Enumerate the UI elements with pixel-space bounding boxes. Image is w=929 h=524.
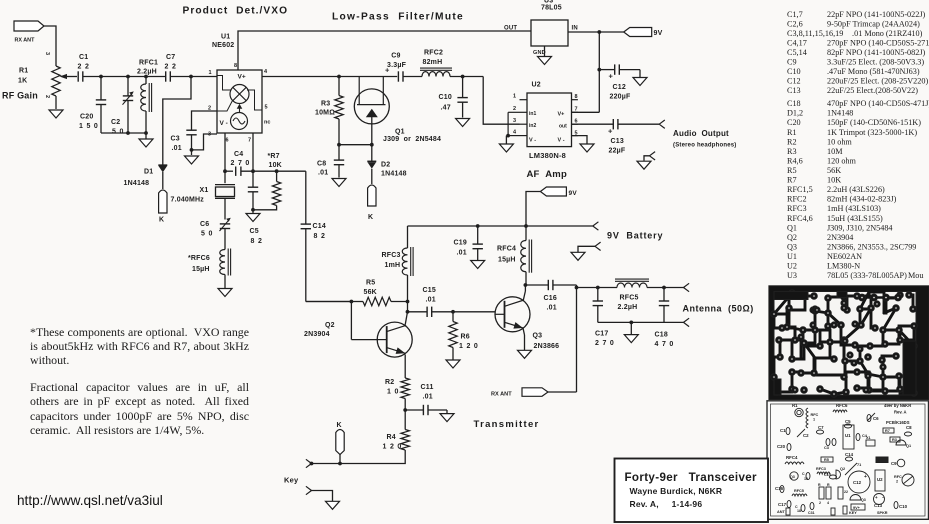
svg-text:RFC4,6: RFC4,6 — [787, 214, 813, 223]
svg-text:10M: 10M — [827, 147, 843, 156]
svg-text:RFC: RFC — [894, 475, 902, 479]
svg-text:8: 8 — [234, 63, 237, 69]
svg-text:1 5 0: 1 5 0 — [79, 123, 99, 130]
svg-text:C2: C2 — [803, 433, 809, 438]
svg-text:RF Gain: RF Gain — [2, 91, 38, 101]
svg-text:82mH (434-02-823J): 82mH (434-02-823J) — [827, 195, 897, 204]
svg-text:RFC5: RFC5 — [794, 489, 804, 493]
svg-text:V -: V - — [220, 120, 228, 127]
svg-text:C12: C12 — [853, 480, 862, 485]
svg-text:C16: C16 — [775, 486, 784, 491]
svg-text:7.040MHz: 7.040MHz — [171, 196, 205, 203]
svg-text:4 7 0: 4 7 0 — [655, 341, 675, 348]
svg-text:10 ohm: 10 ohm — [827, 137, 852, 146]
svg-text:V+: V+ — [238, 74, 246, 81]
svg-text:Q2: Q2 — [787, 233, 797, 242]
svg-text:in1: in1 — [529, 111, 536, 117]
svg-text:C7: C7 — [166, 54, 175, 61]
svg-text:2 7 0: 2 7 0 — [231, 160, 251, 167]
svg-text:1: 1 — [209, 70, 212, 76]
svg-text:in2: in2 — [529, 123, 536, 129]
svg-text:RX ANT: RX ANT — [15, 38, 36, 44]
svg-text:Low-Pass Filter/Mute: Low-Pass Filter/Mute — [332, 12, 464, 23]
svg-text:C7: C7 — [818, 425, 824, 430]
svg-text:C14: C14 — [313, 223, 326, 230]
svg-text:−: − — [882, 495, 885, 500]
svg-text:4: 4 — [513, 130, 517, 136]
svg-text:RFC2: RFC2 — [787, 195, 807, 204]
svg-text:2 2: 2 2 — [165, 64, 177, 71]
svg-text:9V: 9V — [569, 190, 578, 197]
svg-text:Antenna (50Ω): Antenna (50Ω) — [683, 304, 754, 314]
svg-text:C3: C3 — [171, 136, 180, 143]
svg-text:K: K — [159, 217, 164, 224]
svg-text:C10: C10 — [899, 504, 908, 509]
svg-text:Q3: Q3 — [861, 498, 866, 502]
svg-text:7: 7 — [248, 138, 251, 144]
svg-text:RX ANT: RX ANT — [491, 392, 512, 398]
svg-text:2.2µH: 2.2µH — [618, 304, 638, 311]
svg-text:OUT: OUT — [504, 26, 517, 32]
svg-text:C13: C13 — [611, 138, 624, 145]
svg-text:U1: U1 — [221, 34, 230, 41]
svg-text:C10: C10 — [787, 67, 801, 76]
svg-text:RFC4: RFC4 — [786, 455, 798, 460]
svg-text:U3: U3 — [544, 0, 553, 5]
svg-text:56K: 56K — [364, 289, 377, 296]
svg-text:RFC: RFC — [811, 413, 819, 417]
svg-text:C20: C20 — [80, 114, 93, 121]
svg-text:Q1: Q1 — [787, 223, 797, 232]
svg-text:56K: 56K — [827, 166, 841, 175]
svg-text:D1: D1 — [144, 169, 153, 176]
svg-text:1K: 1K — [18, 78, 27, 85]
svg-text:2: 2 — [513, 106, 516, 112]
svg-text:Audio Output: Audio Output — [673, 129, 729, 138]
svg-text:nc: nc — [264, 120, 270, 126]
svg-text:U3: U3 — [787, 271, 797, 280]
svg-text:R7: R7 — [885, 429, 890, 433]
svg-text:8 2: 8 2 — [251, 238, 263, 245]
svg-text:C4: C4 — [234, 151, 243, 158]
svg-text:Rev. A, 1-14-96: Rev. A, 1-14-96 — [630, 499, 703, 509]
svg-text:X1: X1 — [866, 436, 871, 440]
svg-text:82pF NPO (141-100N5-082J): 82pF NPO (141-100N5-082J) — [827, 48, 926, 57]
svg-text:2: 2 — [896, 480, 898, 484]
svg-text:1: 1 — [813, 418, 815, 422]
svg-text:10K: 10K — [827, 176, 841, 185]
svg-text:6: 6 — [226, 138, 229, 144]
svg-text:.01: .01 — [318, 170, 328, 177]
svg-text:J309 or 2N5484: J309 or 2N5484 — [383, 136, 441, 143]
svg-text:RFC5: RFC5 — [620, 295, 639, 302]
svg-text:5: 5 — [265, 105, 268, 111]
svg-text:RFC3: RFC3 — [382, 252, 401, 259]
svg-text:C11: C11 — [421, 384, 434, 391]
svg-text:R3: R3 — [787, 147, 797, 156]
svg-text:U2: U2 — [877, 477, 883, 482]
svg-text:NE602: NE602 — [212, 42, 234, 49]
svg-text:LM380N-8: LM380N-8 — [529, 151, 566, 160]
svg-text:2N3866: 2N3866 — [534, 343, 560, 350]
svg-text:3.3uF/25 Elect. (208-50V3.3): 3.3uF/25 Elect. (208-50V3.3) — [827, 58, 924, 67]
svg-text:AF Amp: AF Amp — [527, 169, 567, 180]
svg-text:10K: 10K — [269, 162, 282, 169]
svg-text:220µF: 220µF — [610, 94, 632, 101]
svg-text:C5: C5 — [250, 228, 259, 235]
svg-text:2.2uH (43LS226): 2.2uH (43LS226) — [827, 185, 885, 194]
svg-text:RFC3: RFC3 — [816, 467, 826, 471]
svg-text:C5,14: C5,14 — [787, 48, 807, 57]
svg-text:R4,6: R4,6 — [787, 157, 803, 166]
svg-text:+: + — [609, 72, 614, 81]
svg-text:R5: R5 — [366, 280, 375, 287]
svg-text:1 0: 1 0 — [387, 389, 399, 396]
svg-text:V -: V - — [529, 138, 536, 144]
svg-text:Rev. A: Rev. A — [894, 410, 907, 415]
svg-text:C10: C10 — [439, 94, 452, 101]
svg-text:2: 2 — [44, 95, 50, 98]
svg-text:9V Battery: 9V Battery — [607, 231, 663, 241]
svg-text:7: 7 — [575, 107, 578, 113]
svg-text:RFC1: RFC1 — [139, 60, 158, 67]
svg-text:C2: C2 — [111, 119, 120, 126]
svg-text:C14: C14 — [845, 452, 854, 457]
svg-text:C20: C20 — [777, 444, 786, 449]
svg-text:8 2: 8 2 — [314, 233, 326, 240]
svg-text:220uF/25 Elect. (208-25V220): 220uF/25 Elect. (208-25V220) — [827, 77, 928, 86]
svg-text:C18: C18 — [787, 99, 801, 108]
svg-text:NE602AN: NE602AN — [827, 252, 862, 261]
svg-text:Q2: Q2 — [840, 467, 845, 471]
svg-text:2: 2 — [819, 501, 821, 505]
svg-text:C17: C17 — [778, 502, 787, 507]
svg-text:C12: C12 — [613, 84, 626, 91]
svg-text:2N3866, 2N3553., 2SC799: 2N3866, 2N3553., 2SC799 — [827, 242, 916, 251]
svg-text:V -: V - — [558, 138, 565, 144]
svg-text:Product Det./VXO: Product Det./VXO — [183, 6, 289, 17]
svg-text:C13: C13 — [874, 503, 883, 508]
svg-text:15µH: 15µH — [498, 257, 516, 264]
svg-text:IN: IN — [572, 26, 578, 32]
svg-text:C5: C5 — [845, 419, 851, 424]
svg-text:Q3: Q3 — [787, 242, 797, 251]
svg-text:71: 71 — [857, 463, 861, 467]
svg-text:Key: Key — [284, 476, 299, 485]
svg-text:15µH: 15µH — [192, 266, 210, 273]
svg-text:8: 8 — [575, 94, 578, 100]
svg-text:Q1: Q1 — [906, 444, 911, 448]
svg-text:5 0: 5 0 — [201, 231, 213, 238]
svg-text:R7: R7 — [787, 176, 797, 185]
svg-text:C6: C6 — [200, 221, 209, 228]
svg-text:*RFC6: *RFC6 — [188, 255, 210, 262]
svg-text:.47: .47 — [441, 105, 451, 112]
svg-text:D1,2: D1,2 — [787, 109, 803, 118]
svg-text:X1: X1 — [200, 187, 209, 194]
svg-text:Q1: Q1 — [395, 129, 405, 136]
svg-text:9-50pF Trimcap (24AA024): 9-50pF Trimcap (24AA024) — [827, 19, 920, 28]
svg-text:22: 22 — [844, 490, 848, 494]
svg-text:150pF (140-CD50N6-151K): 150pF (140-CD50N6-151K) — [827, 118, 921, 127]
svg-text:R: R — [827, 483, 830, 487]
svg-text:C4,17: C4,17 — [787, 39, 807, 48]
svg-text:Transmitter: Transmitter — [474, 419, 540, 430]
svg-text:+: + — [875, 495, 878, 500]
svg-text:1: 1 — [513, 94, 516, 100]
svg-text:R2: R2 — [787, 137, 797, 146]
svg-text:22pF NPO (141-100N5-022J): 22pF NPO (141-100N5-022J) — [827, 10, 926, 19]
svg-text:.01: .01 — [172, 145, 182, 152]
svg-text:Q3: Q3 — [533, 333, 543, 340]
svg-text:22µF: 22µF — [609, 148, 626, 155]
svg-text:3: 3 — [44, 52, 50, 55]
svg-text:K: K — [368, 214, 373, 221]
svg-text:.01: .01 — [547, 305, 557, 312]
svg-text:SPKR: SPKR — [877, 511, 888, 515]
svg-text:C8: C8 — [906, 425, 912, 430]
svg-text:49er by N6KR: 49er by N6KR — [884, 403, 911, 408]
svg-text:1K Trimpot (323-5000-1K): 1K Trimpot (323-5000-1K) — [827, 128, 917, 137]
svg-text:C1,7: C1,7 — [787, 10, 803, 19]
svg-text:R4: R4 — [387, 434, 396, 441]
svg-text:4: 4 — [827, 501, 829, 505]
svg-text:RFC6: RFC6 — [836, 403, 848, 408]
svg-text:C9: C9 — [391, 53, 400, 60]
svg-text:C1: C1 — [780, 428, 786, 433]
svg-text:.01: .01 — [423, 394, 433, 401]
svg-text:C: C — [802, 472, 805, 476]
svg-text:2N3904: 2N3904 — [304, 331, 330, 338]
svg-text:1 2 0: 1 2 0 — [459, 343, 479, 350]
svg-text:U2: U2 — [787, 262, 797, 271]
svg-text:5 0: 5 0 — [112, 129, 124, 136]
svg-text:R2: R2 — [385, 379, 394, 386]
svg-text:R5: R5 — [824, 458, 829, 462]
svg-text:C15: C15 — [423, 287, 436, 294]
svg-text:22uF/25 Elect.(208-50V22): 22uF/25 Elect.(208-50V22) — [827, 86, 918, 95]
svg-text:78L05: 78L05 — [541, 5, 562, 12]
svg-text:U1: U1 — [787, 252, 797, 261]
svg-text:C19: C19 — [454, 240, 467, 247]
svg-text:3.3µF: 3.3µF — [387, 62, 407, 69]
svg-text:2.2µH: 2.2µH — [137, 69, 157, 76]
svg-text:RFC3: RFC3 — [787, 204, 807, 213]
svg-text:out: out — [559, 124, 567, 130]
svg-text:.47uF Mono (581-470NJ63): .47uF Mono (581-470NJ63) — [827, 67, 920, 76]
svg-text:R6: R6 — [461, 334, 470, 341]
svg-text:R3: R3 — [321, 101, 330, 108]
svg-text:V+: V+ — [558, 112, 565, 118]
svg-text:(Stereo headphones): (Stereo headphones) — [673, 143, 736, 149]
svg-text:.01 Mono (21RZ410): .01 Mono (21RZ410) — [850, 29, 923, 38]
svg-text:C6: C6 — [873, 416, 879, 421]
svg-text:KEY: KEY — [849, 511, 857, 515]
svg-text:Q3: Q3 — [790, 475, 795, 479]
svg-text:9V: 9V — [654, 30, 663, 37]
svg-text:C31: C31 — [808, 511, 815, 515]
svg-text:15uH (43LS155): 15uH (43LS155) — [827, 214, 883, 223]
svg-text:R3: R3 — [892, 438, 897, 442]
svg-text:10MΩ: 10MΩ — [315, 110, 335, 117]
svg-text:82mH: 82mH — [423, 59, 443, 66]
svg-text:78L05 (333-78L005AP): 78L05 (333-78L005AP) — [827, 271, 907, 280]
svg-text:R5: R5 — [787, 166, 797, 175]
svg-text:2 7 0: 2 7 0 — [595, 340, 615, 347]
svg-text:R1: R1 — [787, 128, 797, 137]
svg-text:C17: C17 — [595, 331, 608, 338]
svg-text:C9: C9 — [787, 58, 797, 67]
svg-text:.01: .01 — [457, 250, 467, 257]
svg-text:R: R — [818, 483, 821, 487]
svg-text:3: 3 — [513, 118, 516, 124]
svg-text:.01: .01 — [426, 297, 436, 304]
svg-text:C1: C1 — [79, 54, 88, 61]
svg-text:1N4148: 1N4148 — [124, 180, 150, 187]
svg-text:R1: R1 — [19, 68, 28, 75]
svg-text:120 ohm: 120 ohm — [827, 157, 857, 166]
svg-text:1mH (43LS103): 1mH (43LS103) — [827, 204, 881, 213]
svg-text:C2,6: C2,6 — [787, 19, 803, 28]
svg-text:18: 18 — [797, 509, 801, 513]
svg-text:4: 4 — [264, 69, 268, 75]
svg-text:U1: U1 — [845, 433, 851, 438]
svg-text:1 2 0: 1 2 0 — [383, 444, 403, 451]
svg-text:LM380-N: LM380-N — [827, 262, 860, 271]
svg-text:270pF NPO (140-CD50S5-271J: 270pF NPO (140-CD50S5-271J — [827, 39, 929, 48]
svg-text:+: + — [608, 127, 613, 136]
svg-text:9V+: 9V+ — [853, 506, 861, 510]
svg-text:D2: D2 — [381, 161, 390, 168]
svg-text:Q2: Q2 — [325, 322, 335, 329]
svg-text:2 2: 2 2 — [78, 64, 90, 71]
svg-text:C18: C18 — [655, 332, 668, 339]
svg-text:+: + — [864, 474, 867, 480]
svg-text:RFC2: RFC2 — [424, 50, 443, 57]
svg-text:1N4148: 1N4148 — [827, 109, 853, 118]
svg-text:C20: C20 — [787, 118, 801, 127]
svg-text:RFC4: RFC4 — [497, 246, 516, 253]
svg-text:C3: C3 — [824, 446, 829, 450]
svg-text:J309, J310, 2N5484: J309, J310, 2N5484 — [827, 223, 893, 232]
svg-text:1N4148: 1N4148 — [381, 170, 407, 177]
svg-text:1mH: 1mH — [385, 262, 401, 269]
svg-text:C12: C12 — [787, 77, 801, 86]
svg-text:C9: C9 — [891, 461, 897, 466]
svg-text:K: K — [337, 422, 342, 429]
svg-text:470pF NPO (140-CD50S-471J): 470pF NPO (140-CD50S-471J) — [827, 99, 929, 108]
svg-text:R1: R1 — [792, 403, 798, 408]
svg-text:RFC1,5: RFC1,5 — [787, 185, 813, 194]
svg-text:Wayne Burdick, N6KR: Wayne Burdick, N6KR — [630, 486, 723, 496]
svg-text:Forty-9er Transceiver: Forty-9er Transceiver — [625, 471, 758, 484]
svg-text:Mou: Mou — [908, 271, 923, 280]
svg-text:U2: U2 — [532, 82, 541, 89]
svg-text:2N3904: 2N3904 — [827, 233, 853, 242]
svg-text:C3,8,11,15,16,19: C3,8,11,15,16,19 — [787, 29, 843, 38]
svg-text:C8: C8 — [317, 161, 326, 168]
svg-text:ANT: ANT — [777, 510, 785, 514]
svg-text:*R7: *R7 — [268, 153, 280, 160]
svg-text:C13: C13 — [787, 86, 801, 95]
svg-text:C16: C16 — [544, 295, 557, 302]
